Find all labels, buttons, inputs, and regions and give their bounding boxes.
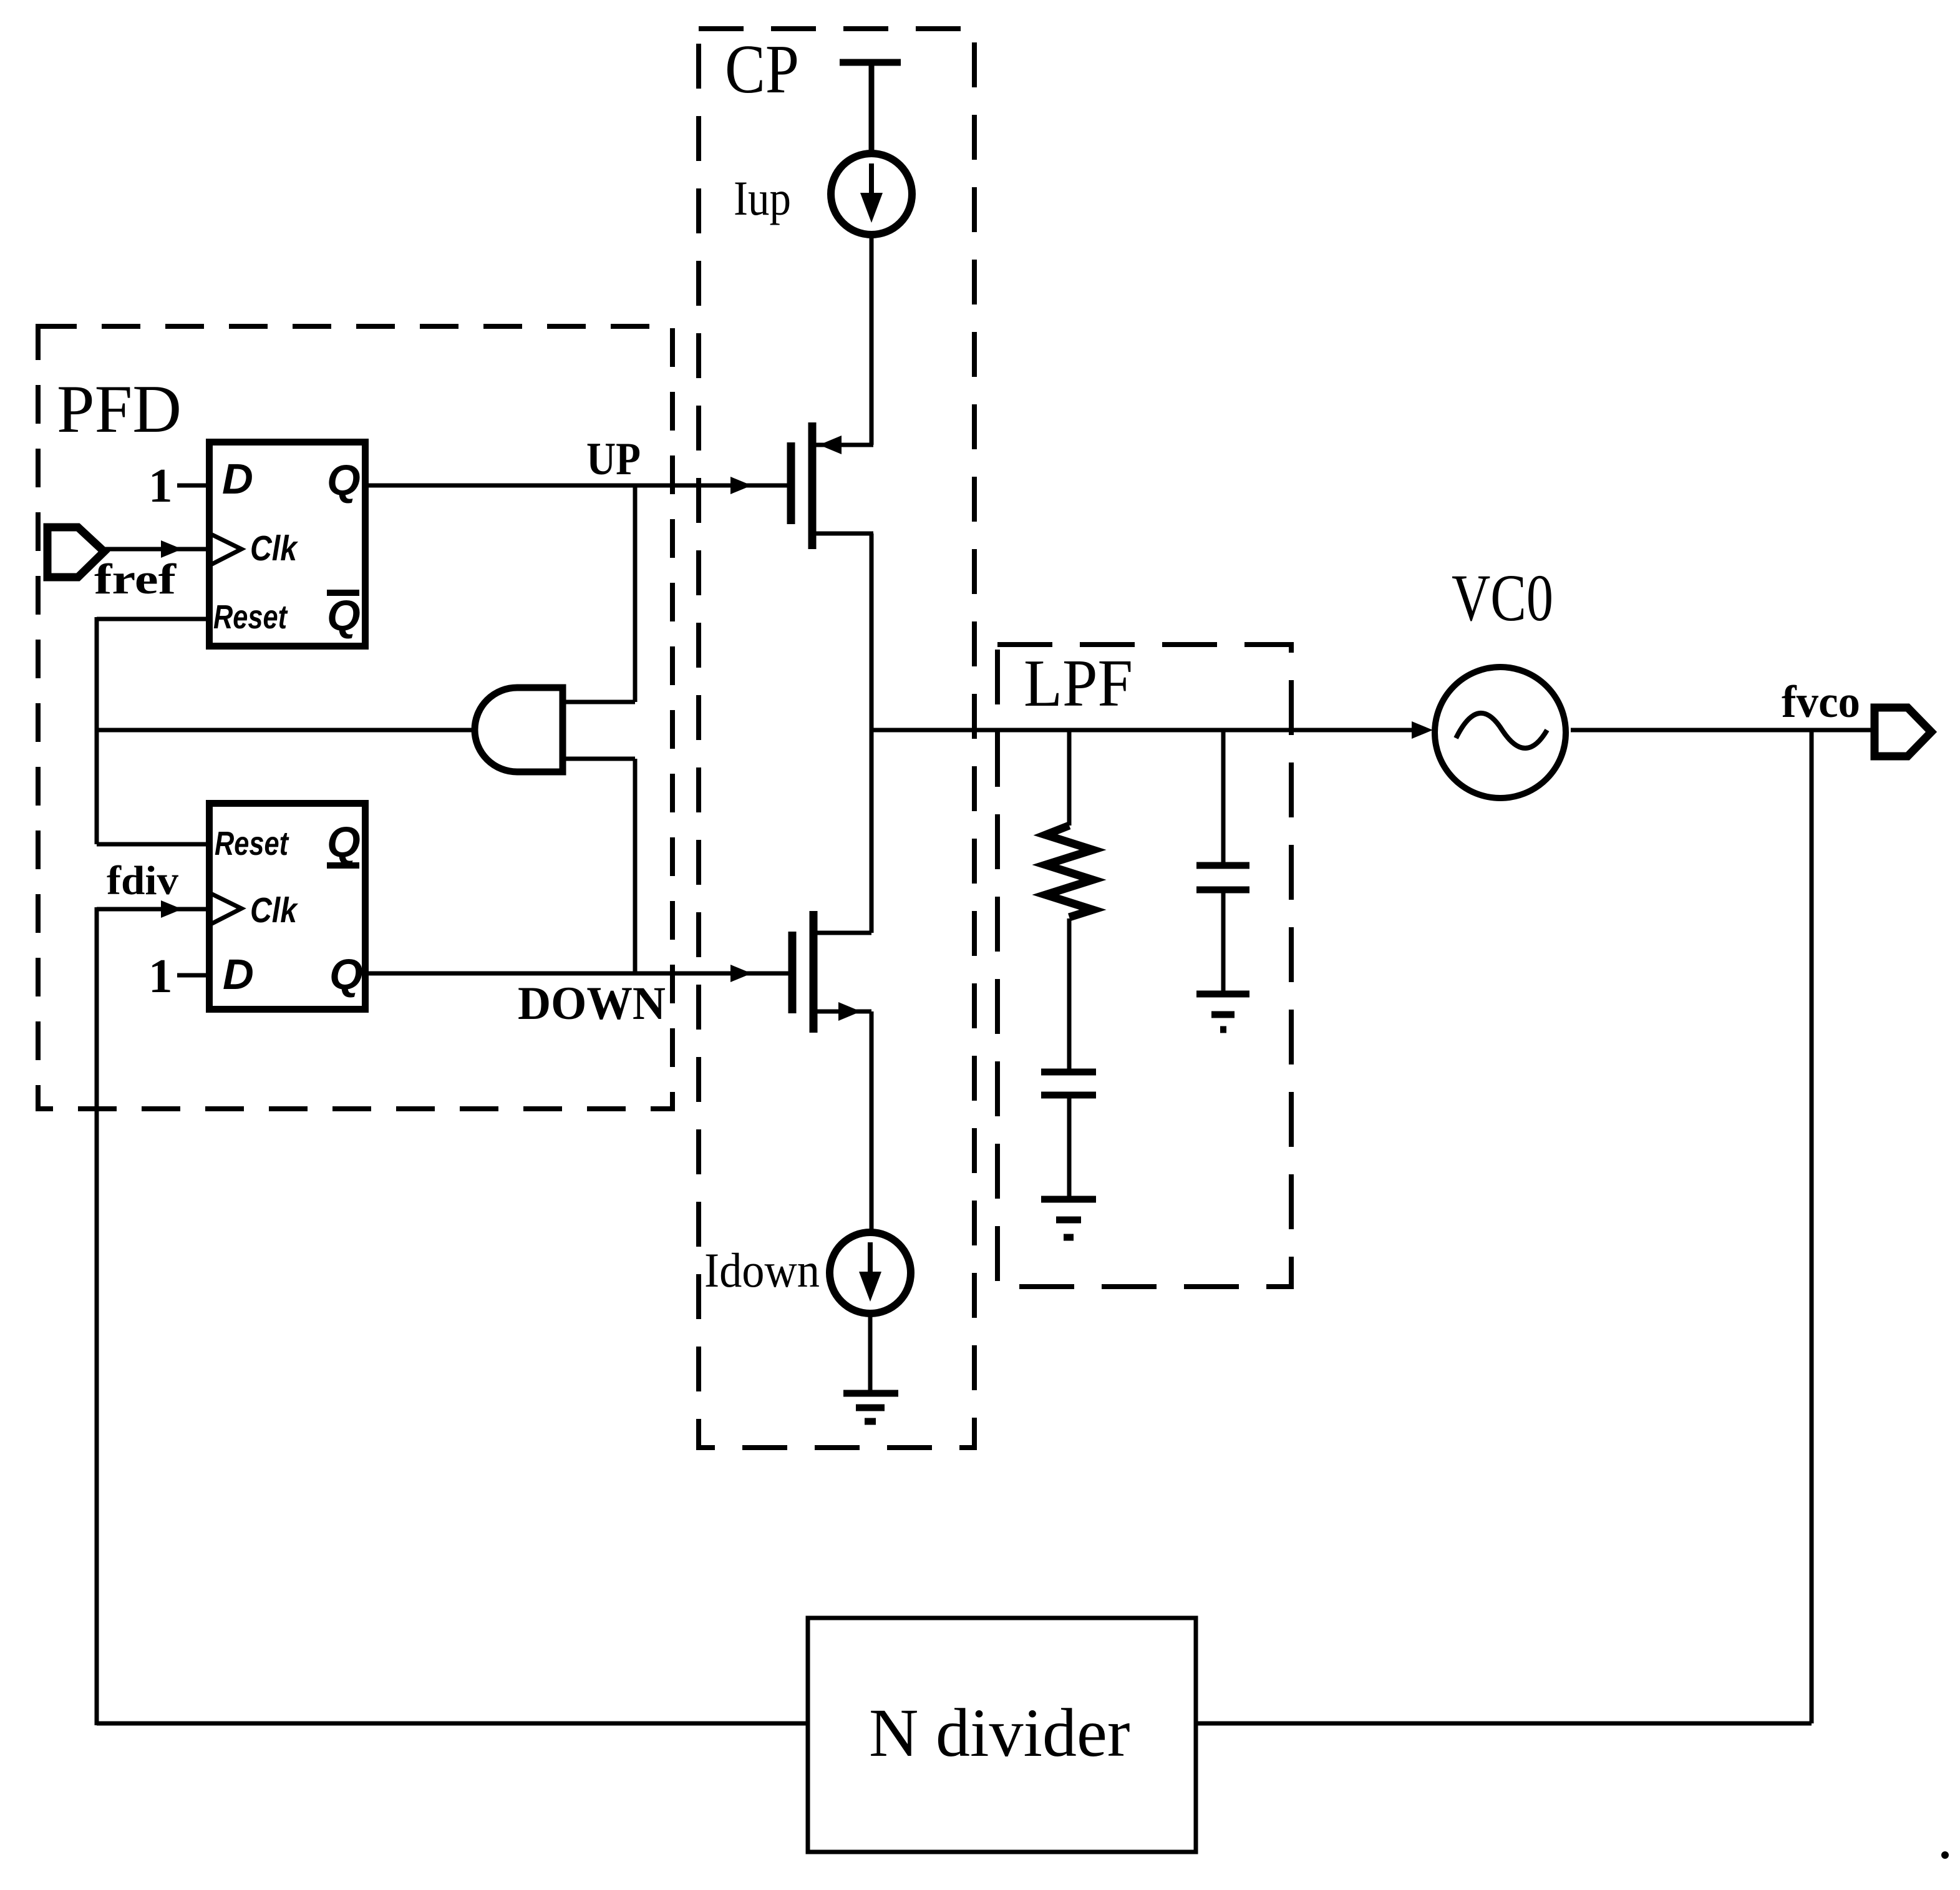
svg-text:D: D bbox=[222, 455, 253, 503]
wire DOWN (U2.Q to NMOS gate) bbox=[365, 972, 788, 976]
wire fref to U1.Clk bbox=[104, 547, 210, 552]
wire C2 to ground bbox=[1221, 890, 1226, 994]
svg-text:Q: Q bbox=[327, 456, 361, 504]
PFD block dashed border bbox=[38, 326, 672, 1109]
resistor R1 bbox=[1067, 730, 1072, 826]
feedback wire down bbox=[1810, 730, 1814, 1723]
wire UP (U1.Q to PMOS gate) bbox=[365, 484, 787, 488]
svg-text:Reset: Reset bbox=[215, 825, 289, 862]
flip-flop U2 box bbox=[210, 804, 366, 1010]
wire fdiv to U2.Clk bbox=[97, 907, 210, 912]
wire reset vertical bbox=[95, 617, 99, 844]
svg-text:Reset: Reset bbox=[213, 598, 288, 636]
VCO sine wave bbox=[1456, 713, 1547, 748]
current source Idown bbox=[830, 1232, 911, 1313]
fvco output port bbox=[1875, 708, 1931, 756]
wire 1 to U1.D bbox=[177, 484, 210, 488]
svg-text:Idown: Idown bbox=[704, 1243, 820, 1297]
NMOS M2 bbox=[788, 932, 797, 1013]
wire Iup to PMOS source bbox=[870, 235, 874, 445]
U1 clk edge triangle bbox=[211, 534, 241, 565]
svg-text:D: D bbox=[223, 950, 254, 998]
AND gate U3 (faces left) bbox=[475, 688, 563, 772]
wire U1.Reset bbox=[97, 617, 210, 621]
svg-text:VC0: VC0 bbox=[1452, 562, 1553, 635]
wire DOWN branch to AND bbox=[633, 759, 638, 973]
U2 clk edge triangle bbox=[211, 894, 241, 924]
caption period dot bbox=[1941, 1851, 1949, 1859]
wire NMOS source down bbox=[870, 1011, 874, 1231]
wire AND top input stub bbox=[563, 700, 635, 704]
wire C1 to ground bbox=[1067, 1095, 1072, 1199]
svg-text:UP: UP bbox=[586, 434, 641, 485]
CP dashed box bbox=[699, 29, 974, 1448]
svg-text:DOWN: DOWN bbox=[518, 978, 666, 1030]
wire PMOS drain down bbox=[870, 533, 874, 732]
wire VCO output to fvco port bbox=[1571, 728, 1871, 733]
svg-text:Iup: Iup bbox=[734, 171, 791, 225]
node wire CP output to VCO bbox=[870, 728, 1416, 733]
svg-text:Q: Q bbox=[327, 592, 361, 640]
flip-flop U1 box bbox=[210, 442, 366, 646]
svg-text:Q: Q bbox=[327, 818, 361, 866]
feedback wire to N divider bbox=[1198, 1722, 1812, 1726]
svg-text:fdiv: fdiv bbox=[107, 858, 178, 904]
PMOS M1 bbox=[787, 442, 795, 524]
wire UP branch to AND bbox=[633, 485, 638, 702]
ground under Idown bbox=[843, 1390, 898, 1397]
wire fdiv vertical bbox=[95, 907, 99, 1725]
VDD rail bbox=[840, 59, 901, 66]
svg-text:Clk: Clk bbox=[250, 890, 299, 930]
svg-text:Clk: Clk bbox=[250, 529, 299, 568]
fref input port bbox=[47, 527, 104, 577]
wire U2.Reset bbox=[97, 842, 210, 847]
LPF dashed box bbox=[997, 645, 1291, 1287]
svg-text:fvco: fvco bbox=[1782, 676, 1860, 727]
ground under C2 bbox=[1196, 991, 1249, 998]
wire NMOS drain up bbox=[870, 728, 874, 933]
capacitor C2 bbox=[1196, 862, 1249, 869]
wire AND output to reset rail bbox=[97, 728, 475, 733]
wire R1 to C1 bbox=[1067, 918, 1072, 1072]
current source Iup bbox=[831, 153, 912, 235]
svg-text:fref: fref bbox=[94, 555, 177, 603]
wire Idown to ground bbox=[868, 1314, 873, 1393]
svg-text:1: 1 bbox=[148, 459, 173, 512]
svg-text:CP: CP bbox=[725, 31, 799, 108]
svg-text:LPF: LPF bbox=[1024, 646, 1133, 721]
wire AND bottom input stub bbox=[563, 757, 635, 761]
capacitor C2 branch bbox=[1221, 730, 1226, 865]
svg-text:1: 1 bbox=[148, 949, 173, 1003]
wire 1 to U2.D bbox=[177, 973, 210, 978]
svg-text:Q: Q bbox=[329, 950, 363, 998]
VCO circle bbox=[1435, 667, 1566, 798]
capacitor C1 bbox=[1041, 1069, 1096, 1076]
svg-text:PFD: PFD bbox=[57, 371, 182, 447]
N divider box bbox=[808, 1618, 1196, 1852]
ground under C1 bbox=[1041, 1196, 1096, 1203]
svg-text:N divider: N divider bbox=[869, 1695, 1130, 1771]
wire N divider to fdiv rail bbox=[97, 1722, 808, 1726]
